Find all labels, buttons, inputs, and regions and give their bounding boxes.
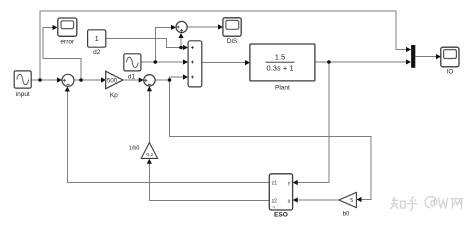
gain 1/b0 (0.2, pointing up) <box>129 143 158 159</box>
svg-text:Kp: Kp <box>110 92 118 99</box>
arrowhead: into Sum0 bottom <box>178 33 183 38</box>
source block input (sine wave) <box>14 71 31 98</box>
constant d2 <box>88 30 106 56</box>
wire: Sum0 to DiS scope <box>187 26 218 28</box>
wire: z2 feedback to 1/b0 gain <box>149 163 269 200</box>
svg-text:error: error <box>60 39 75 46</box>
arrowhead: into Sum1 left <box>57 77 62 82</box>
wire: Sum1 to Kp <box>74 79 101 81</box>
svg-text:input: input <box>16 91 30 98</box>
wire: IO mux to IO scope <box>416 56 437 58</box>
wire: 1/b0 gain to Sum2 bottom <box>148 91 150 143</box>
wire: u signal down-right to b0 <box>170 80 372 200</box>
gain b0 (5, pointing left) <box>339 192 356 217</box>
svg-text:Plant: Plant <box>275 85 290 92</box>
junction: d2 branch <box>179 46 183 50</box>
arrowhead: into Sum2 left <box>139 77 144 82</box>
svg-text:IO: IO <box>447 70 454 76</box>
svg-text:u: u <box>288 198 291 204</box>
wire: Plant output to IO mux input 2 <box>315 61 406 63</box>
svg-text:d1: d1 <box>128 74 136 81</box>
junction: y tap on Plant output <box>327 60 331 64</box>
arrowhead: into Kp gain <box>101 77 106 82</box>
arrowhead: into IO scope <box>436 54 441 59</box>
scope DiS <box>223 18 241 45</box>
wire: Add block to Plant <box>202 62 246 64</box>
scope IO <box>441 47 459 75</box>
wire: Kp to Sum2 <box>123 79 139 81</box>
svg-text:z1: z1 <box>272 180 278 186</box>
svg-text:1: 1 <box>95 36 99 43</box>
arrowhead: into ESO y input <box>293 180 298 185</box>
svg-text:0.3s + 1: 0.3s + 1 <box>267 63 294 72</box>
sum S1 (input - z1) <box>62 74 74 86</box>
svg-text:5: 5 <box>350 198 353 204</box>
mux before IO scope <box>411 45 415 68</box>
svg-text:ESO: ESO <box>274 212 288 219</box>
junction: d1 branch <box>154 60 158 64</box>
svg-text:DiS: DiS <box>227 38 238 45</box>
wire: Sum2 output to Add block input 3 <box>155 77 184 80</box>
arrowhead: into Add block input 1 <box>183 45 188 50</box>
svg-text:1.5: 1.5 <box>275 53 285 62</box>
gain Kp <box>106 71 123 99</box>
sum S0 (d1+d2) <box>176 21 187 32</box>
wire: d1 branch up to Sum0 left <box>155 27 171 62</box>
wire: error tap from Sum1 output up to error scope <box>43 28 81 81</box>
svg-text:z2: z2 <box>272 198 278 204</box>
wire: z1 feedback to Sum1 bottom <box>67 91 269 182</box>
subsystem ESO (ports z1 z2 y u) <box>269 174 292 219</box>
arrowhead: into DiS scope <box>218 24 223 29</box>
arrowhead: into Add block input 2 <box>183 59 188 64</box>
source block d1 (sine wave) <box>124 54 141 81</box>
arrowhead: into Sum0 left <box>171 25 176 30</box>
arrowhead: into IO mux input 1 <box>406 47 411 52</box>
arrowhead: into Plant <box>245 60 250 65</box>
wire: d1 to Add block input 2 <box>141 61 184 63</box>
watermark 知乎 @W两 <box>390 197 418 211</box>
wire: b0 to ESO u input <box>297 199 339 201</box>
wire: y feedback down to ESO y input <box>297 62 329 183</box>
arrowhead: into Sum2 bottom <box>147 86 152 91</box>
junction: input reference tap <box>38 78 42 82</box>
svg-text:0.2: 0.2 <box>146 152 153 158</box>
scope error <box>58 18 77 46</box>
junction: u tap on Sum2 output <box>168 78 172 82</box>
wire: reference riser to IO mux (top long wire) <box>40 11 406 80</box>
svg-text:b0: b0 <box>343 212 350 218</box>
arrowhead: into error scope <box>53 25 58 30</box>
wire: input to Sum1 <box>31 79 57 81</box>
wire: d2 branch up to Sum0 bottom <box>180 38 182 48</box>
arrowhead: into Add block input 3 <box>183 74 188 79</box>
add block U1 (3-input sum into plant) <box>188 41 202 87</box>
transfer function Plant 1.5/(0.3s+1) <box>250 44 315 92</box>
svg-text:1/b0: 1/b0 <box>129 146 140 152</box>
arrowhead: into b0 gain <box>357 197 362 202</box>
svg-text:d2: d2 <box>93 49 101 56</box>
arrowhead: into 1/b0 gain bottom <box>147 159 152 164</box>
junction: error tap on Sum1 output <box>79 78 83 82</box>
wire: d2 to Add block input 1 <box>106 39 184 48</box>
arrowhead: into IO mux input 2 <box>406 59 411 64</box>
arrowhead: into ESO u input <box>293 197 298 202</box>
sum S2 (u0 - z2/b0) <box>144 75 155 86</box>
arrowhead: into Sum1 bottom <box>65 87 70 92</box>
svg-text:500: 500 <box>107 78 118 84</box>
